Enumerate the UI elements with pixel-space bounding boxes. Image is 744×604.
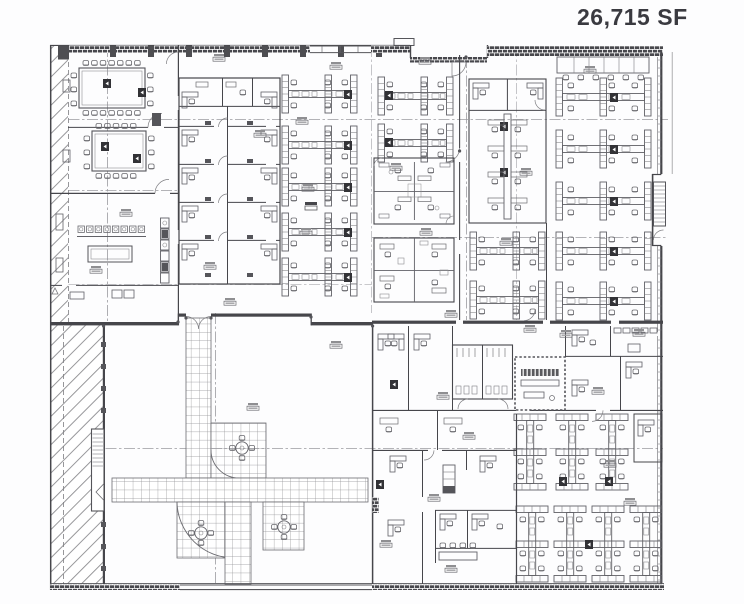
workstation pod bottom col 1 <box>516 506 548 582</box>
wall corridor x459 <box>446 55 460 320</box>
wall cabinet left 2 <box>63 150 70 162</box>
copier center row 1 <box>344 90 352 99</box>
workstation pod bottom col 3 <box>592 506 624 582</box>
copier center row 3 <box>344 183 352 192</box>
appliance column right of break <box>161 218 170 283</box>
window mullion ticks right lower <box>658 340 662 580</box>
workstation pod mid-right row 1 <box>470 232 545 270</box>
stair alcove west <box>92 429 105 511</box>
door arc upper right room <box>535 100 545 110</box>
room right wall rooms y360-410 <box>572 356 642 410</box>
tiled path vertical lower <box>225 502 251 584</box>
copier mid row 2 <box>385 138 393 147</box>
block C room dividers <box>179 126 280 240</box>
copier mid row 1 <box>385 91 393 100</box>
wall outer right lower inner line <box>657 336 659 584</box>
credenza left 3 <box>56 214 63 230</box>
office room ne <box>467 450 497 472</box>
server racks <box>521 369 559 401</box>
conference table B <box>84 124 155 179</box>
block E1 outline <box>374 158 454 224</box>
wall bottom band east (hatched) <box>372 584 664 590</box>
hatch strip lower dashed boundary <box>63 326 65 584</box>
wall outer right lower <box>660 332 662 584</box>
round table lower left plaza <box>189 521 215 546</box>
copier center row 2 <box>344 141 352 150</box>
grid line over plaza <box>211 448 266 450</box>
workstation pod right col row 1 <box>556 78 651 116</box>
grid line vertical C <box>215 313 217 584</box>
wall room divider x452 <box>452 326 454 410</box>
roof notch above entry <box>394 39 414 46</box>
equipment box conf A-1 <box>103 79 111 88</box>
door arc block C r1 <box>219 118 228 127</box>
door arc restroom R <box>498 399 508 409</box>
north triangle on hatch <box>52 288 58 294</box>
wall corridor y410 <box>372 409 663 411</box>
grid line horizontal D <box>50 284 372 286</box>
wall atrium west <box>103 325 105 584</box>
grid line vertical F <box>516 46 518 320</box>
tiled plaza lower left arc <box>177 502 234 558</box>
office desk room x570 <box>572 330 596 346</box>
door arc corridor NW <box>166 52 178 64</box>
bench row along top wall <box>557 57 649 80</box>
hatch strip boundary dashed <box>68 46 70 322</box>
entry recess right jamb <box>487 45 489 58</box>
door arc corridor SE <box>592 410 603 421</box>
window boxes atrium west wall <box>101 342 106 571</box>
tiled plaza mid with arc <box>211 423 266 478</box>
workstation pod south row1 col 1 <box>514 414 546 490</box>
wall atrium north left <box>50 322 178 325</box>
room name labels <box>90 54 645 572</box>
touchdown bench <box>439 543 477 560</box>
workstation pod bottom col 4 <box>630 506 662 582</box>
atrium entry door arcs <box>186 317 211 330</box>
block R1 phone rooms <box>469 79 546 110</box>
grid line horizontal C <box>372 237 668 239</box>
door arc restroom L <box>458 399 468 409</box>
copier right col row 5 <box>610 297 618 306</box>
wall bottom thin line <box>50 583 664 585</box>
wall block R1 south extension <box>546 223 548 320</box>
equipment dark block small <box>152 113 161 126</box>
round table upper plaza <box>230 436 256 461</box>
block E1 cubicle cross <box>374 158 454 224</box>
area label 26,715 SF <box>577 4 687 31</box>
tiled path corner arc <box>211 450 239 478</box>
wall top band B (hatched) <box>371 46 410 54</box>
wall atrium east <box>372 325 374 584</box>
workstation pod center row 2 <box>282 126 357 164</box>
break island table <box>88 246 132 262</box>
door arc room SE2 <box>424 450 434 460</box>
tiled plaza lower right <box>263 502 304 550</box>
round table lower right plaza <box>272 515 298 540</box>
wall atrium north raised left <box>178 314 186 317</box>
block C outline <box>179 78 280 284</box>
dark label tag center <box>305 202 317 210</box>
office room desk <box>376 456 406 489</box>
top wall pilasters <box>110 46 382 58</box>
wall conference east <box>177 45 179 322</box>
workstation pod right col row 4 <box>556 232 651 270</box>
grid line horizontal E <box>50 448 663 450</box>
block E2 interior <box>374 238 454 302</box>
wall atrium east hatch mark <box>373 497 379 513</box>
small office right y414 <box>634 414 662 462</box>
block C desks <box>182 92 277 277</box>
door arc block C r4 <box>219 232 228 241</box>
equipment box conf A-2 <box>138 88 146 97</box>
copier right col row 4 <box>610 247 618 256</box>
wall x565 <box>565 326 567 356</box>
hatch strip lower left <box>51 322 103 584</box>
copier center row 5 <box>344 273 352 282</box>
workstation pod center row 5 <box>282 258 357 296</box>
workstation pod right col row 2 <box>556 130 651 168</box>
door arc bottom room <box>524 309 535 321</box>
door arc block C r3 <box>219 194 228 203</box>
copier south row1 a <box>559 477 567 486</box>
wall top corner pier <box>58 46 69 60</box>
vending machines <box>70 290 134 299</box>
wall atrium north step right jamb <box>310 314 312 326</box>
wall x610 <box>610 326 612 356</box>
stair in right recess <box>654 182 666 240</box>
block R1 outline <box>469 79 546 223</box>
copier right col row 2 <box>610 145 618 154</box>
workstation pod right col row 5 <box>556 282 651 320</box>
credenza left 4 <box>56 258 63 272</box>
block R1 cubicle spine <box>488 114 527 219</box>
door arc block C r2 <box>219 156 228 165</box>
workstation pod south row1 col 2 <box>556 414 588 490</box>
copier right col row 1 <box>610 93 618 102</box>
workstation pod mid row 2 <box>378 124 453 162</box>
grid line horizontal A <box>50 119 668 121</box>
wall break room south <box>50 284 178 286</box>
exam rooms y414-450 <box>380 410 462 450</box>
wall conference divider 1 <box>68 113 178 127</box>
wall atrium north step left jamb <box>177 314 179 326</box>
workstation pod south row1 col 3 <box>596 414 628 490</box>
workstation pod mid-right row 2 <box>470 281 545 319</box>
block E2 outline <box>374 238 454 302</box>
wall corridor south right half <box>372 321 663 324</box>
tiled band horizontal <box>112 478 368 502</box>
grid line vertical E <box>466 57 468 320</box>
copier right col row 3 <box>610 197 618 206</box>
block C top room divider <box>179 78 280 106</box>
wall y450 bottom-center <box>372 449 516 451</box>
copier center row 4 <box>344 228 352 237</box>
equipment box conf B-2 <box>133 154 141 163</box>
grid line vertical D <box>371 46 373 313</box>
wall outer right upper <box>652 52 661 332</box>
workstation pod center row 3 <box>282 168 357 206</box>
wall outer right upper inner line <box>657 57 659 332</box>
entry recess band (hatched) <box>410 57 487 63</box>
window mullion ticks right upper <box>658 60 662 330</box>
break counter with stools <box>77 226 146 237</box>
block C column divider <box>227 106 229 284</box>
wall junction dots <box>102 55 468 327</box>
wall room divider x408 <box>408 326 410 410</box>
workstation pod mid row 1 <box>378 77 453 115</box>
grid line vertical A <box>59 46 61 584</box>
workstation pod center row 4 <box>282 213 357 251</box>
workstation pod center row 1 <box>282 75 357 113</box>
storefront glazing lines <box>310 46 371 53</box>
copier bottom block <box>585 540 593 549</box>
equipment box conf B-1 <box>101 142 109 151</box>
wall atrium north raised right <box>211 314 311 317</box>
wall atrium north right <box>311 322 373 325</box>
walls inner bottom-center <box>423 510 517 584</box>
wall outer left <box>50 45 52 590</box>
wall conference divider 2 <box>50 179 178 193</box>
electrical panels <box>614 328 657 352</box>
entry door arc <box>452 62 466 76</box>
tiled plaza lower left <box>177 502 234 558</box>
wall top thin line <box>50 44 410 46</box>
grid line horizontal B <box>50 190 178 192</box>
tiled path vertical upper <box>186 318 211 478</box>
office room west wall x422 <box>422 450 424 497</box>
copy cabinet column <box>443 465 455 493</box>
small desks bottom-center <box>388 514 503 536</box>
grid line vertical B <box>107 46 109 322</box>
wall top band C (hatched) <box>487 46 663 57</box>
wall bottom double line mid <box>180 585 372 590</box>
entry recess left jamb <box>410 45 412 58</box>
copier south row1 b <box>605 477 613 486</box>
wall top band A (hatched) <box>60 46 310 54</box>
wall cabinet left 1 <box>63 80 70 92</box>
server room scalloped border <box>515 357 565 410</box>
workstation pod right col row 3 <box>556 182 651 220</box>
hatch strip upper left <box>51 46 68 322</box>
wall y360 right <box>565 355 663 357</box>
wall x516 bottom <box>516 414 518 584</box>
workstation pod bottom col 2 <box>554 506 586 582</box>
restroom block <box>453 345 513 399</box>
wall bottom band west (hatched) <box>50 584 180 590</box>
roof overhang line right <box>671 52 673 174</box>
office desks rooms y330 <box>378 334 430 389</box>
conference table A <box>71 61 154 116</box>
